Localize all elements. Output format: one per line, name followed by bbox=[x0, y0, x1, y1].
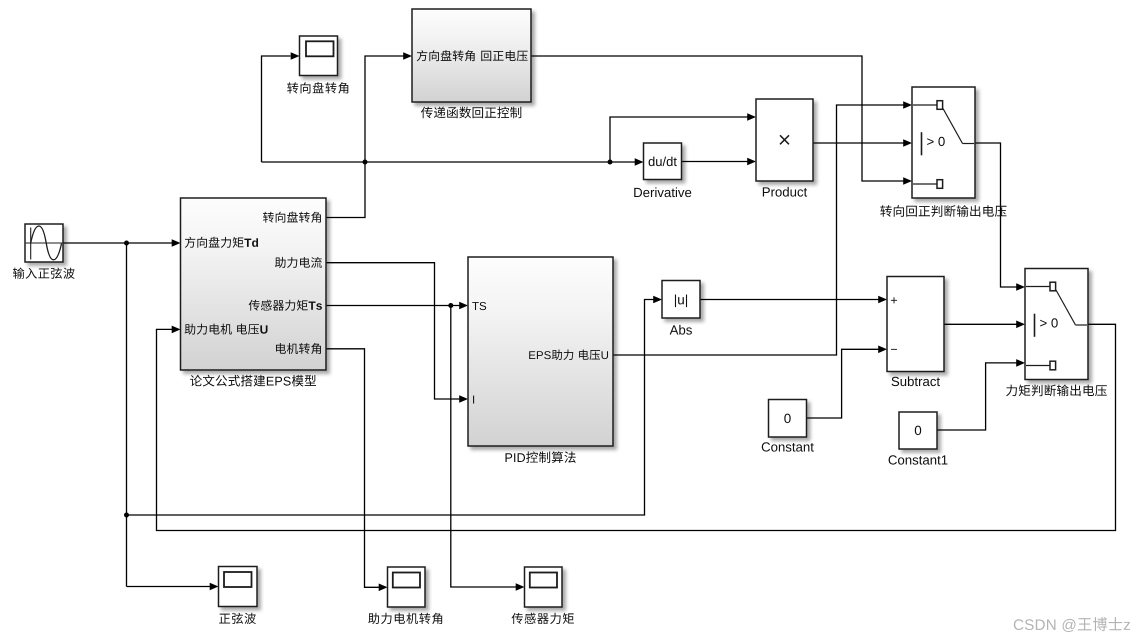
port I bbox=[473, 396, 474, 404]
label Abs bbox=[670, 325, 692, 335]
block Abs bbox=[662, 281, 700, 319]
wire to scope top bbox=[262, 52, 300, 162]
port 转向盘转角 bbox=[263, 212, 321, 223]
wire motor angle to scope bbox=[326, 349, 388, 591]
label scope top bbox=[287, 82, 348, 93]
wire current to PID I bbox=[326, 263, 468, 403]
label 助力电机转角 bbox=[368, 613, 442, 624]
wire EPS angle out bbox=[326, 52, 412, 217]
port 电机转角 bbox=[276, 343, 321, 354]
subsystem 传递函数回正控制 bbox=[412, 9, 531, 102]
port 方向盘力矩Td bbox=[185, 237, 258, 248]
wire Abs to Subtract bbox=[700, 296, 887, 304]
watermark CSDN bbox=[1014, 617, 1130, 632]
scope block 传感器力矩 bbox=[525, 567, 563, 607]
wire Switch1 to Switch2 bbox=[975, 143, 1025, 291]
wire Constant1 to Switch2 bbox=[937, 359, 1025, 430]
node Ts branch bbox=[448, 303, 453, 308]
label 输入正弦波 bbox=[13, 268, 75, 279]
node sine branch bbox=[124, 241, 129, 246]
label switch1 bbox=[880, 205, 1006, 217]
block Constant1 bbox=[899, 412, 937, 449]
port TS bbox=[472, 302, 486, 310]
wire Switch2 feedback bbox=[157, 324, 1116, 530]
node sine to abs branch bbox=[124, 513, 129, 518]
wire sine branch down bbox=[126, 243, 128, 587]
wire xfer to Switch1 in3 bbox=[531, 56, 912, 185]
subsystem PID bbox=[468, 257, 613, 446]
switch block 力矩判断输出电压 bbox=[1025, 269, 1088, 380]
wire Ts to scope bbox=[451, 306, 525, 591]
port 助力电流 bbox=[275, 257, 322, 268]
label Constant bbox=[762, 442, 814, 451]
block Constant bbox=[769, 400, 807, 438]
label 传感器力矩 bbox=[512, 613, 574, 624]
wire sine to Abs bbox=[127, 296, 663, 515]
label Product bbox=[763, 187, 807, 197]
node rail-product branch bbox=[608, 160, 613, 165]
label 传递函数回正控制 bbox=[421, 107, 521, 119]
label 正弦波 bbox=[219, 613, 256, 624]
wire PID to Switch1 in1 bbox=[613, 101, 912, 355]
subsystem EPS model bbox=[181, 198, 327, 370]
block Product bbox=[756, 99, 813, 181]
scope block 正弦波 bbox=[219, 567, 258, 607]
label Derivative bbox=[634, 187, 691, 197]
scope block 助力电机转角 bbox=[388, 567, 426, 607]
port 助力电机电压U bbox=[185, 324, 268, 335]
label Constant1 bbox=[889, 455, 948, 464]
label switch2 bbox=[1006, 385, 1107, 397]
node angle rail bbox=[363, 160, 368, 165]
sine source block bbox=[25, 224, 63, 262]
wire sine to EPS Td bbox=[63, 239, 181, 247]
wire Subtract to Switch2 bbox=[944, 321, 1025, 329]
port EPS助力电压U bbox=[529, 349, 608, 360]
wire rail to Product in1 bbox=[610, 113, 756, 162]
wire to scope zhengxianbo bbox=[127, 583, 219, 591]
block Derivative bbox=[644, 143, 682, 180]
label PID bbox=[505, 451, 575, 463]
wire Product to Switch1 bbox=[813, 139, 912, 147]
label Subtract bbox=[892, 376, 940, 386]
wire Derivative to Product bbox=[682, 158, 757, 166]
wire Constant to Subtract bbox=[807, 346, 888, 419]
label EPS model bbox=[190, 375, 316, 387]
port label 方向盘转角 bbox=[417, 50, 475, 61]
block Subtract bbox=[887, 277, 944, 372]
scope block top 转向盘转角 bbox=[300, 36, 338, 76]
wire angle rail to Derivative bbox=[262, 158, 644, 166]
wire Ts to PID TS bbox=[326, 302, 468, 310]
port 传感器力矩Ts bbox=[249, 300, 322, 311]
port label 回正电压 bbox=[481, 50, 527, 61]
switch block 转向回正判断输出电压 bbox=[912, 87, 975, 198]
